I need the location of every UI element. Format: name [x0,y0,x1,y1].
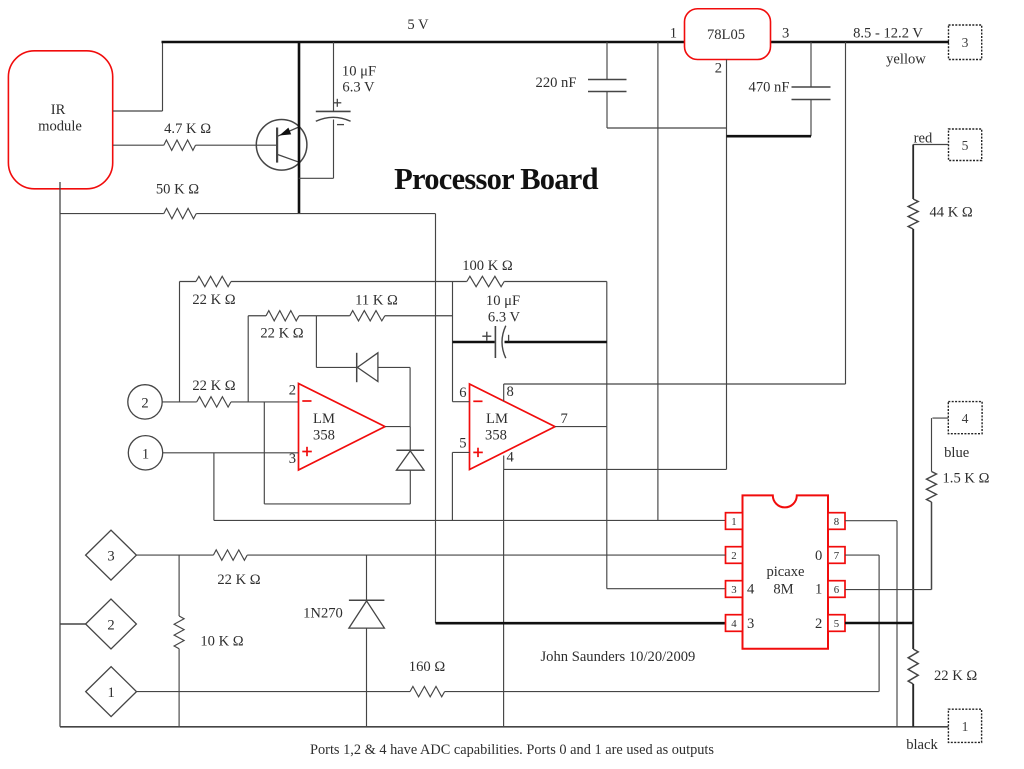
svg-text:10 μF: 10 μF [486,293,520,309]
feedback loop wire [263,402,265,504]
svg-text:2: 2 [107,618,114,634]
resistor 100 K ohm [467,276,504,286]
svg-text:470 nF: 470 nF [749,80,790,96]
svg-text:picaxe: picaxe [766,564,804,580]
svg-text:3: 3 [731,584,736,596]
svg-text:22 K Ω: 22 K Ω [934,668,977,684]
5V rail [162,41,685,44]
svg-text:1.5 K Ω: 1.5 K Ω [943,471,990,487]
svg-text:22 K Ω: 22 K Ω [192,292,235,308]
resistor 22 K ohm diamond3 [136,554,213,556]
svg-text:1: 1 [731,516,736,528]
svg-text:1: 1 [107,685,114,701]
svg-text:5 V: 5 V [407,17,429,33]
svg-text:11 K Ω: 11 K Ω [355,293,398,309]
long vertical 5V to op-amp pin8 [845,42,847,384]
capacitor C1 10uF 6.3V [333,42,335,111]
feedback 22 K ohm resistor R2 [179,282,181,402]
regulator U3 78L05 [685,9,771,60]
svg-text:3: 3 [782,26,789,42]
svg-text:2: 2 [731,550,736,562]
wire divider vertical [912,229,914,623]
wire C3 ground to regulator pin2 [607,127,727,129]
svg-text:6.3 V: 6.3 V [342,80,375,96]
svg-text:4: 4 [507,450,515,466]
svg-text:8.5 - 12.2 V: 8.5 - 12.2 V [853,26,923,42]
wire picaxe pin1 net [214,519,726,521]
resistor 44 K ohm [908,199,918,229]
diode D1 pointing left [315,316,317,368]
picaxe 8M IC body [743,495,829,648]
svg-text:4: 4 [747,582,755,598]
svg-text:3: 3 [747,616,754,632]
svg-text:44 K Ω: 44 K Ω [930,205,973,221]
svg-text:1: 1 [142,447,149,463]
wire picaxe pin3 net [607,588,726,590]
svg-text:1: 1 [815,582,822,598]
capacitor C2 10uF 6.3V horizontal [453,341,495,344]
svg-text:Ports 1,2 & 4 have ADC capabil: Ports 1,2 & 4 have ADC capabilities. Por… [310,742,714,758]
svg-text:yellow: yellow [886,52,926,68]
transistor Q1 [256,120,307,171]
diode 1N270 [366,555,368,600]
svg-text:7: 7 [834,550,840,562]
wire 100K corner down [606,282,608,427]
svg-text:8: 8 [507,384,514,400]
svg-text:22 K Ω: 22 K Ω [260,326,303,342]
terminal box 5 [949,129,982,161]
left border wire [59,213,61,727]
terminal diamond 3 [86,530,137,580]
svg-text:2: 2 [289,383,296,399]
svg-text:3: 3 [289,451,296,467]
svg-text:0: 0 [815,548,822,564]
wire U2 output down [606,427,608,589]
resistor 4.7 K ohm [164,140,196,150]
wire feedback node down to pin6 [452,282,454,402]
svg-text:John Saunders 10/20/2009: John Saunders 10/20/2009 [541,649,696,665]
terminal box 1 [948,709,981,742]
wire picaxe pin6 to port1 net [845,589,932,591]
wire picaxe pin4 net thick [436,622,726,625]
svg-text:358: 358 [485,428,507,444]
wire IR module base output [113,144,164,146]
op-amp U1 plus [302,451,312,453]
wire U2 pin4 ground [503,456,505,470]
long vertical 5V to picaxe pin1 line [657,42,659,520]
svg-text:160 Ω: 160 Ω [409,659,446,675]
op-amp U2 LM358 [470,384,556,470]
svg-text:2: 2 [815,616,822,632]
svg-text:module: module [38,119,82,135]
op-amp U1 output wire [385,426,410,428]
diode D2 pointing up [396,449,424,451]
svg-text:5: 5 [962,138,969,153]
wire circle1 to op-amp plus [163,452,299,454]
wire picaxe pin8 to ground [845,520,897,522]
svg-text:10 μF: 10 μF [342,64,376,80]
terminal diamond 1 [86,667,137,717]
resistor 160 ohm [137,691,411,693]
svg-text:1N270: 1N270 [303,606,343,622]
svg-text:4: 4 [731,618,737,630]
ground border bottom [60,726,948,728]
terminal box 4 [948,402,982,434]
svg-text:358: 358 [313,428,335,444]
svg-text:5: 5 [834,618,839,630]
svg-text:1: 1 [670,26,677,42]
resistor 1.5 K ohm [932,417,948,419]
terminal box 3 [949,25,982,60]
resistor 11 K ohm [316,315,349,317]
wire border to diamond 2 [60,623,86,625]
wire IR module top output to 5V rail [113,110,163,112]
svg-text:Processor Board: Processor Board [394,162,598,196]
resistor 22 K ohm input [162,401,197,403]
wire C1 bottom to collector rail [299,177,334,179]
capacitor C4 470 nF [810,42,812,87]
resistor 50 K ohm and wire [60,213,164,215]
svg-text:6: 6 [834,584,840,596]
svg-text:blue: blue [944,445,969,461]
wire picaxe pin7 to port0 net [845,554,879,556]
op-amp U1 LM358 [299,384,386,471]
capacitor C3 220 nF [606,42,608,80]
wire U2 pin5 stub [452,451,469,453]
IR module box [8,51,112,189]
svg-text:3: 3 [107,549,114,565]
svg-text:2: 2 [715,61,722,77]
svg-text:6: 6 [459,385,466,401]
svg-text:3: 3 [962,35,969,50]
op-amp U2 plus [473,451,483,453]
wire box5 to divider [913,144,948,146]
svg-text:black: black [906,737,938,753]
svg-text:100 K Ω: 100 K Ω [462,258,513,274]
svg-text:220 nF: 220 nF [536,75,577,91]
svg-text:22 K Ω: 22 K Ω [217,572,260,588]
svg-text:22 K Ω: 22 K Ω [192,378,235,394]
wire tap to picaxe pin1 line [213,453,215,521]
svg-text:78L05: 78L05 [707,27,745,43]
svg-text:10 K Ω: 10 K Ω [200,634,243,650]
svg-text:LM: LM [486,411,508,427]
wire picaxe pin5 thick [845,622,913,625]
svg-text:1: 1 [962,719,969,734]
terminal diamond 2 [86,599,137,649]
op-amp U2 output wire [555,426,607,428]
picaxe pin squares [726,513,743,530]
thick vertical collector rail [298,42,301,214]
node circle 1 [128,436,162,470]
svg-text:6.3 V: 6.3 V [488,310,521,326]
svg-text:5: 5 [459,436,466,452]
svg-text:IR: IR [51,102,66,118]
svg-text:50 K Ω: 50 K Ω [156,182,199,198]
svg-text:4.7 K Ω: 4.7 K Ω [164,121,211,137]
svg-text:2: 2 [141,396,148,412]
svg-text:7: 7 [561,411,568,427]
wire C4 ground thick [727,135,812,138]
node circle 2 [128,385,162,419]
svg-text:LM: LM [313,411,335,427]
long vertical wire to picaxe pin4 line [435,214,437,624]
op-amp U2 minus [473,400,482,402]
wire IR module ground stub [59,182,61,213]
resistor 22 K ohm bottom right [912,623,914,649]
op-amp U1 minus [302,400,311,402]
wire U2 pin6 stub [453,401,470,403]
svg-text:4: 4 [962,411,969,426]
svg-text:8: 8 [834,516,839,528]
wire U2 pin8 supply [503,384,505,401]
svg-text:8M: 8M [773,582,793,598]
resistor 22 K ohm second [247,316,249,402]
resistor 10 K ohm [178,555,180,616]
wire regulator pin2 ground vertical [726,60,728,470]
